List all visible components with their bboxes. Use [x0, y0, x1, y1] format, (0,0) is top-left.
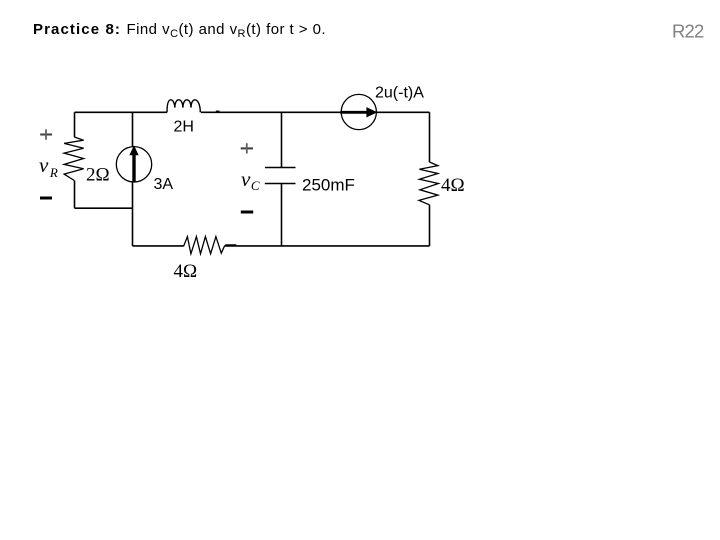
small wire tick: [216, 110, 220, 112]
wire 3A branch bottom lead: [132, 182, 134, 246]
wire right branch top lead: [429, 112, 431, 162]
inductor L1 2H coil: [167, 100, 200, 113]
wire bottom left segment: [133, 245, 184, 247]
resistor R3 4ohm zigzag (bottom): [184, 237, 225, 254]
title text: [33, 21, 326, 40]
wire capacitor branch bottom lead: [281, 184, 283, 246]
current source I2 arrow: [340, 107, 377, 117]
current source I2 circle (2u(-t)A): [341, 94, 376, 129]
resistor R1 2ohm zigzag: [64, 137, 84, 181]
voltage label vC minus: [241, 211, 253, 214]
wire top right segment: [376, 111, 429, 113]
svg-text:4Ω: 4Ω: [441, 175, 465, 196]
svg-text:2u(-t)A: 2u(-t)A: [375, 85, 424, 102]
svg-text:R22: R22: [672, 21, 704, 42]
svg-text:Find vC(t) and vR(t) for t > 0: Find vC(t) and vR(t) for t > 0.: [127, 21, 327, 40]
small wire tick after bottom resistor: [225, 244, 236, 246]
svg-text:vC: vC: [241, 167, 260, 193]
wire left branch top lead: [74, 112, 76, 137]
voltage label vR plus: [40, 134, 52, 136]
svg-text:250mF: 250mF: [302, 176, 355, 195]
wire bottom-left horizontal: [75, 207, 133, 209]
voltage label vC plus: [241, 147, 253, 149]
svg-text:3A: 3A: [154, 176, 174, 193]
wire top middle segment: [201, 111, 341, 113]
voltage label vR minus: [40, 197, 52, 200]
svg-text:vR: vR: [39, 153, 58, 180]
svg-text:4Ω: 4Ω: [174, 261, 198, 282]
wire top left segment: [75, 111, 168, 113]
wire capacitor branch top lead: [281, 112, 283, 167]
wire right branch bottom lead: [429, 205, 431, 246]
resistor R2 4ohm zigzag (right): [419, 162, 439, 205]
capacitor C1 plates: [265, 168, 296, 184]
wire bottom right segment: [224, 245, 429, 247]
svg-text:2H: 2H: [174, 119, 194, 136]
current source I1 circle (3A): [116, 147, 151, 182]
svg-text:Practice 8:: Practice 8:: [33, 21, 121, 38]
wire 3A branch top lead: [132, 112, 134, 147]
wire left branch bottom lead: [74, 181, 76, 209]
current source I1 arrow: [129, 145, 138, 181]
svg-text:2Ω: 2Ω: [86, 165, 110, 186]
